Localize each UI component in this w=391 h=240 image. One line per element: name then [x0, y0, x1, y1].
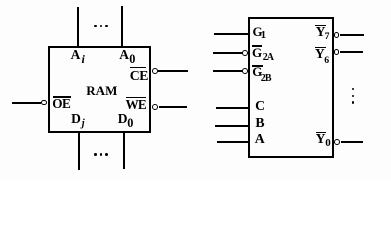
- pin label OE (active low): [52, 97, 70, 110]
- ellipsis between address lines (top): [94, 25, 97, 28]
- bubble: Y0 active-low output: [334, 139, 340, 145]
- pin label Y_7 (active low): [316, 25, 326, 38]
- wire: CE output line: [158, 70, 188, 72]
- wire: RAM top address line A_i: [77, 7, 79, 46]
- wire: OE input: [12, 102, 41, 104]
- bubble: CE active-low: [152, 68, 158, 74]
- pin label G_2B (active low): [252, 65, 262, 78]
- wire: enable input G1: [214, 33, 249, 35]
- pin label A_0: [119, 48, 129, 62]
- bubble: WE active-low: [152, 104, 158, 110]
- bubble: Y7 active-low output: [334, 32, 340, 38]
- wire: enable input G2B: [213, 70, 243, 72]
- wire: Y7 output: [340, 34, 364, 36]
- pin label CE (active low): [130, 69, 148, 83]
- wire: select input A: [217, 141, 248, 143]
- vertical ellipsis between Y6 and Y0: [352, 88, 355, 91]
- wire: RAM top address line A_0: [121, 6, 123, 47]
- pin label Y_0 (active low): [316, 132, 326, 145]
- pin label A_i: [71, 48, 81, 62]
- wire: Y0 output: [341, 141, 363, 143]
- pin label B: [255, 116, 264, 130]
- bubble: G2B active-low: [242, 68, 248, 74]
- pin label WE (active low): [126, 98, 146, 111]
- pin label A: [255, 132, 265, 146]
- wire: select input C: [216, 107, 248, 109]
- bubble: G2A active-low: [242, 50, 248, 56]
- wire: RAM bottom data line D_0: [123, 133, 125, 169]
- wire: enable input G2A: [213, 52, 243, 54]
- wire: RAM bottom data line D_j: [78, 133, 80, 170]
- pin label C: [255, 99, 265, 113]
- pin label G_2A (active low): [252, 46, 262, 59]
- decoder chip box: [248, 17, 334, 158]
- part name RAM: [86, 84, 117, 97]
- bubble: OE active-low: [41, 100, 47, 106]
- wire: Y6 output: [340, 51, 363, 53]
- wire: WE line: [159, 106, 188, 108]
- RAM chip box: [48, 46, 152, 133]
- pin label D_0: [118, 112, 128, 126]
- wire: select input B: [215, 125, 248, 127]
- pin label D_j: [71, 112, 81, 126]
- pin label Y_6 (active low): [315, 47, 325, 60]
- pin label G_1: [253, 25, 263, 38]
- ellipsis between data lines (bottom): [94, 153, 97, 156]
- bubble: Y6 active-low output: [334, 49, 340, 55]
